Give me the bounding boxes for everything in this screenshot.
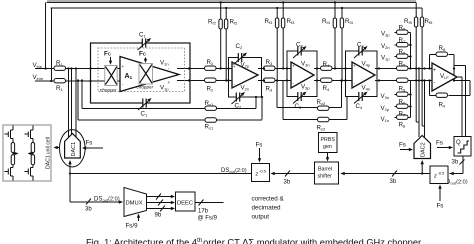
wire Rz2 bottom left riser xyxy=(282,81,284,120)
svg-text:gen: gen xyxy=(323,144,332,150)
DAC1 unit cell branch 1 xyxy=(5,126,17,181)
wire DMUX out 2 xyxy=(147,202,172,204)
resistor Rf2 left xyxy=(219,19,222,29)
svg-text:Rf5: Rf5 xyxy=(404,18,413,25)
wire DMUX out 1 xyxy=(147,196,172,198)
wire Rz2 segment left riser xyxy=(276,81,278,108)
svg-text:R5: R5 xyxy=(399,61,406,68)
capacitor C2 top xyxy=(234,51,249,64)
resistor R9 summer bottom xyxy=(436,93,448,97)
wire Rz row A (Rz2 segment) xyxy=(277,107,341,109)
Fc arrow chopper2 xyxy=(145,58,147,61)
capacitor C4 bottom xyxy=(354,90,369,103)
svg-text:R1: R1 xyxy=(56,60,63,67)
wire rail2 left drop to Vinm node xyxy=(50,8,52,81)
slashes 9b bus xyxy=(156,194,165,212)
capacitor C3 top xyxy=(293,45,308,58)
integrator 2 loop box xyxy=(229,58,262,98)
svg-text:R3: R3 xyxy=(266,59,273,66)
wire Rz row B (Rz2 segment) xyxy=(283,119,347,121)
wire Fs up into delay right xyxy=(439,188,441,202)
wire top ladder row V2n xyxy=(395,44,411,46)
svg-text:C3: C3 xyxy=(295,103,302,110)
op-amp summer VLF xyxy=(432,63,457,91)
chopper 1 (input chopper) xyxy=(105,66,117,86)
wire feedback rail 1 (top) xyxy=(47,0,416,2)
wire row B tee up to int2 loop xyxy=(261,97,263,120)
svg-text:Barrel: Barrel xyxy=(318,167,332,173)
svg-text:DSout⟨2:0⟩: DSout⟨2:0⟩ xyxy=(94,196,120,203)
svg-text:DEEC: DEEC xyxy=(177,201,193,207)
label 17b xyxy=(198,200,218,222)
svg-text:3b: 3b xyxy=(284,180,291,186)
wire Rz row A left riser xyxy=(81,81,83,109)
capacitor C2 bottom xyxy=(232,91,247,104)
wire top ladder row V3p xyxy=(395,33,411,69)
svg-text:C2: C2 xyxy=(235,103,242,110)
svg-text:+: + xyxy=(292,64,295,69)
svg-text:R6: R6 xyxy=(399,99,406,106)
svg-text:VLF: VLF xyxy=(440,73,449,80)
wire main top line xyxy=(35,68,432,70)
capacitor C3 bottom xyxy=(293,90,308,103)
svg-text:R3: R3 xyxy=(266,86,273,93)
svg-text:+: + xyxy=(233,64,236,69)
resistor R7 (V2p) xyxy=(397,104,409,108)
svg-text:chopper: chopper xyxy=(137,85,154,90)
svg-text:@ Fs/9: @ Fs/9 xyxy=(198,216,218,222)
resistor R6 (V3n) xyxy=(397,92,409,96)
svg-text:shifter: shifter xyxy=(318,174,333,180)
resistor R2 bottom xyxy=(205,78,217,82)
svg-text:Dout⟨2:0⟩: Dout⟨2:0⟩ xyxy=(446,179,468,186)
wire quantizer output down xyxy=(450,156,464,174)
resistor R5 bottom main xyxy=(397,78,409,82)
DAC1 xyxy=(65,134,81,159)
delay z-0.5 middle xyxy=(252,164,270,182)
svg-text:Fig. 1: Architecture of the 4t: Fig. 1: Architecture of the 4thorder CT … xyxy=(86,238,421,244)
op-amp integrator 4 xyxy=(352,62,375,88)
wire DMUX out 3 xyxy=(147,208,172,210)
resistor R1 top xyxy=(54,66,66,70)
wire summer output xyxy=(457,77,462,137)
resistor Rz2 (row A) xyxy=(318,106,330,110)
svg-text:DMUX: DMUX xyxy=(126,201,143,207)
wire feedback data bus y173.5 xyxy=(273,173,431,175)
wire Rf3 drop left xyxy=(276,8,278,81)
svg-text:Rf2: Rf2 xyxy=(208,19,217,26)
resistor R3 top xyxy=(264,66,276,70)
svg-text:Fs: Fs xyxy=(256,142,263,149)
wire DAC2 feed up xyxy=(421,162,423,174)
integrator 3 loop box xyxy=(287,51,317,97)
wire bottom ladder riser xyxy=(410,81,412,118)
svg-text:DAC2: DAC2 xyxy=(421,142,427,157)
wire bottom ladder row V1n xyxy=(395,117,411,119)
barrel shifter xyxy=(315,162,339,184)
resistor Rz1 (row A) xyxy=(205,106,217,110)
svg-text:Rf4: Rf4 xyxy=(345,18,354,25)
resistor Rf3 right xyxy=(281,18,284,28)
svg-text:FC: FC xyxy=(139,51,147,58)
wire DAC1 output n to input node xyxy=(75,69,77,141)
DAC1 unit cell box xyxy=(3,125,52,181)
quantizer Q xyxy=(454,137,471,157)
svg-text:-: - xyxy=(168,66,170,71)
resistor Rf3 left xyxy=(275,18,278,28)
resistor Rf5 right xyxy=(420,17,423,27)
wire Rz2 right riser to int4 input xyxy=(341,81,343,108)
resistor R2 top xyxy=(205,66,217,70)
svg-text:output: output xyxy=(252,214,270,221)
svg-text:R7: R7 xyxy=(399,37,406,44)
label 3b bus right xyxy=(390,171,398,186)
svg-text:Rf3: Rf3 xyxy=(265,18,274,25)
svg-text:-0.5: -0.5 xyxy=(438,171,446,176)
wire Rf4 drop right xyxy=(341,8,343,81)
wire Rf2 drop left xyxy=(220,3,222,69)
resistor R4 top xyxy=(321,66,333,70)
wire row A tee up to int2 loop xyxy=(255,97,257,109)
wire DAC1 output p to input node xyxy=(68,69,70,141)
svg-text:R5: R5 xyxy=(399,86,406,93)
wire Rf4 drop left xyxy=(334,3,336,69)
svg-text:R2: R2 xyxy=(207,59,214,66)
svg-text:V2n: V2n xyxy=(381,43,390,50)
integrator 1 outer loop box with C1 xyxy=(91,43,191,103)
wire Rf5 left drop xyxy=(416,3,419,123)
svg-text:C1: C1 xyxy=(139,32,146,39)
svg-text:Rz2: Rz2 xyxy=(317,99,326,106)
svg-text:R1: R1 xyxy=(56,85,63,92)
svg-text:DSout⟨2:0⟩: DSout⟨2:0⟩ xyxy=(221,167,247,174)
wire bus to DAC1 xyxy=(70,173,252,175)
wire Fs into DAC1 xyxy=(86,147,103,149)
wire Rf3 drop right xyxy=(282,3,284,69)
svg-text:+: + xyxy=(433,68,436,74)
resistor unit cell 2b xyxy=(31,155,34,165)
wire Fs into DAC2 xyxy=(400,149,410,151)
wire Fs into quantizer xyxy=(437,147,450,149)
wire Rf2 drop right xyxy=(225,8,227,81)
wire feedback rail 2 xyxy=(51,7,423,9)
wire main bottom line xyxy=(35,80,432,83)
chopper 2 (inside A1) xyxy=(139,64,153,85)
svg-text:17b: 17b xyxy=(198,209,209,215)
wire R9 loop xyxy=(430,81,471,96)
wire Fs down into delay middle xyxy=(259,148,261,160)
svg-text:Rf4: Rf4 xyxy=(322,18,331,25)
DEEC xyxy=(176,192,196,211)
svg-text:Q: Q xyxy=(456,140,461,146)
wire DAC1 output mid xyxy=(71,69,73,140)
DMUX xyxy=(124,188,147,217)
svg-text:R7: R7 xyxy=(399,111,406,118)
svg-text:V2p: V2p xyxy=(241,62,250,69)
resistor Rf4 left xyxy=(333,18,336,28)
wire R8 loop xyxy=(430,55,455,81)
svg-text:z: z xyxy=(255,172,259,178)
svg-text:3b: 3b xyxy=(390,179,397,185)
resistor R3 bottom xyxy=(264,78,276,82)
capacitor C1 bottom xyxy=(138,97,153,110)
resistor R8 (V1p) xyxy=(397,54,409,58)
svg-text:Fs: Fs xyxy=(436,140,443,147)
resistor unit cell 2a xyxy=(31,143,34,153)
arrow to unit cell detail xyxy=(56,147,59,149)
svg-text:9b: 9b xyxy=(155,213,162,219)
DAC2 xyxy=(414,136,431,159)
svg-text:V2n: V2n xyxy=(241,85,250,92)
svg-text:Fs: Fs xyxy=(86,140,93,147)
svg-text:V3p: V3p xyxy=(381,31,390,38)
label 3b quantizer output xyxy=(452,160,465,166)
resistor Rf2 right xyxy=(224,19,227,29)
label corrected decimated output xyxy=(252,196,285,221)
PRBS gen xyxy=(319,133,338,153)
resistor R6 (V3p) xyxy=(397,30,409,34)
wire rail1 left drop to Vinp node xyxy=(45,3,47,69)
capacitor C4 top xyxy=(354,45,369,58)
svg-text:C2: C2 xyxy=(236,43,243,50)
junction dots input and feedback taps xyxy=(45,1,381,98)
svg-text:R2: R2 xyxy=(207,86,214,93)
wire Fs/9 into DMUX xyxy=(138,216,140,221)
resistor R1 bottom xyxy=(54,79,66,83)
resistor R4 bottom xyxy=(321,78,333,82)
svg-text:V4n: V4n xyxy=(362,85,371,92)
wire Rz row A (Rz1 segment) xyxy=(82,108,256,110)
label 3b bus left xyxy=(284,171,291,186)
svg-text:C4: C4 xyxy=(357,42,364,49)
wire top ladder row V1p xyxy=(395,56,411,58)
svg-text:R8: R8 xyxy=(399,49,406,56)
svg-text:V3p: V3p xyxy=(301,84,310,91)
svg-text:Fs: Fs xyxy=(437,203,444,210)
svg-text:R4: R4 xyxy=(323,61,330,68)
svg-text:PRBS: PRBS xyxy=(321,137,336,143)
svg-text:C4: C4 xyxy=(356,103,363,110)
svg-text:Vinp: Vinp xyxy=(33,62,43,69)
svg-text:R9: R9 xyxy=(439,102,446,109)
svg-text:Rz1: Rz1 xyxy=(205,124,214,131)
resistor R8 summer top xyxy=(436,52,448,56)
svg-text:R8: R8 xyxy=(399,122,406,129)
capacitor C1 top xyxy=(138,37,153,50)
integrator 1 inner dashed box xyxy=(98,48,185,92)
svg-text:+: + xyxy=(122,64,125,69)
svg-text:FC: FC xyxy=(104,51,112,58)
svg-text:Rz1: Rz1 xyxy=(205,100,214,107)
wire summer output branch 2 xyxy=(454,66,466,137)
junction dots summer area xyxy=(409,44,455,108)
svg-text:V3n: V3n xyxy=(301,61,310,68)
op-amp integrator 3 xyxy=(291,62,314,88)
resistor R8 (V1n) xyxy=(397,115,409,119)
svg-text:R6: R6 xyxy=(399,25,406,32)
resistor Rf5 left xyxy=(414,17,417,27)
svg-text:Rf3: Rf3 xyxy=(287,18,296,25)
svg-text:Vinm: Vinm xyxy=(33,74,44,81)
svg-text:corrected &: corrected & xyxy=(252,196,285,203)
wire row B right riser to int4 loop xyxy=(346,97,348,120)
wire bottom ladder row V2p xyxy=(395,106,411,108)
DAC1 unit cell branch 2 xyxy=(25,126,34,181)
delay z-0.5 right xyxy=(430,166,448,184)
resistor R7 (V2n) xyxy=(397,43,409,47)
wire DAC1 vertical feed xyxy=(69,162,71,202)
svg-text:Rf5: Rf5 xyxy=(425,18,434,25)
svg-text:V4p: V4p xyxy=(362,61,371,68)
svg-text:C1: C1 xyxy=(141,111,148,118)
svg-text:V2p: V2p xyxy=(381,105,390,112)
resistor Rf4 right xyxy=(340,18,343,28)
wire DSout to DMUX xyxy=(70,201,120,203)
label 3b DSout xyxy=(85,199,92,213)
wire PRBS to barrel xyxy=(327,153,329,159)
svg-text:decimated: decimated xyxy=(252,205,282,212)
wire DAC2 up left xyxy=(418,69,420,138)
amplifier A1 xyxy=(120,57,179,92)
svg-text:z: z xyxy=(433,174,437,180)
svg-text:R8: R8 xyxy=(439,45,446,52)
wire Rz row B (Rz1 segment) xyxy=(78,119,262,121)
svg-text:3b: 3b xyxy=(85,207,92,213)
resistor unit cell 1b xyxy=(11,155,14,165)
polarity marks integrators xyxy=(122,64,357,87)
resistor R5 top main xyxy=(397,66,409,70)
svg-text:chopper: chopper xyxy=(100,88,117,93)
wire Rf5 right drop xyxy=(422,8,424,126)
svg-text:V1n: V1n xyxy=(381,116,390,123)
svg-text:Fs: Fs xyxy=(399,142,406,149)
integrator 4 loop box xyxy=(346,51,378,97)
svg-text:+: + xyxy=(353,64,356,69)
wire Rz row B left riser xyxy=(77,81,79,121)
op-amp integrator 2 xyxy=(232,62,258,88)
svg-text:DAC1: DAC1 xyxy=(71,142,77,157)
svg-text:R4: R4 xyxy=(323,85,330,92)
DAC1 ellipse xyxy=(60,130,86,167)
svg-text:A1: A1 xyxy=(125,73,133,80)
svg-text:Rf2: Rf2 xyxy=(230,19,239,26)
wire bottom ladder row V3n xyxy=(395,94,411,96)
svg-text:C3: C3 xyxy=(296,42,303,49)
svg-text:-0.5: -0.5 xyxy=(259,169,267,174)
svg-text:+: + xyxy=(168,80,171,85)
resistor Rz2 (row B) xyxy=(318,117,330,121)
svg-text:V3n: V3n xyxy=(381,93,390,100)
resistor unit cell 1a xyxy=(11,143,14,153)
svg-text:3b: 3b xyxy=(452,160,459,166)
Fc arrow chopper1 xyxy=(110,57,112,62)
svg-text:Rz2: Rz2 xyxy=(317,125,326,132)
wire DAC2 up right xyxy=(424,81,426,138)
svg-text:V1p: V1p xyxy=(381,55,390,62)
svg-text:V1p: V1p xyxy=(160,85,169,92)
svg-text:Fs/9: Fs/9 xyxy=(126,223,139,230)
svg-text:DAC1 unit cell: DAC1 unit cell xyxy=(46,137,52,169)
wire DEEC out xyxy=(195,202,224,204)
resistor Rz1 (row B) xyxy=(205,118,217,122)
